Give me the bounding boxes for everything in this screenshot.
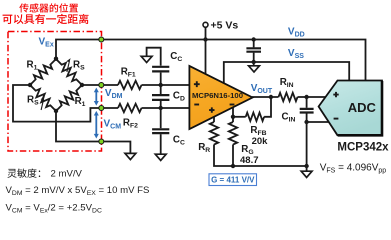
ground at ADC input rail [301, 171, 312, 177]
node: RG/RFB [231, 115, 235, 119]
variable arrow on bottom-left RS [41, 99, 44, 110]
boundary node VCM [99, 139, 104, 144]
node: bridge top [54, 57, 58, 61]
resistor R1 bridge top-left [30, 59, 56, 85]
svg-text:2 mV/V: 2 mV/V [51, 169, 83, 180]
wire: bypass cap branch from top rail [253, 40, 255, 48]
wire: RR from amp feedback + pin down to rail [213, 117, 215, 122]
ground on VCM run [125, 153, 136, 159]
wire: VSS rail to ADC [224, 62, 349, 84]
wire: VOUT to RIN to ADC + [252, 96, 279, 98]
wire: bridge left node loop to RF2 line [13, 85, 118, 122]
pin - main input [194, 104, 199, 106]
resistor RG [229, 122, 237, 145]
capacitor CC bottom [152, 129, 169, 133]
svg-text:MCP342x: MCP342x [337, 142, 389, 154]
node: VOUT [269, 95, 273, 99]
VCM arrow [95, 115, 97, 135]
resistor RF2 [118, 104, 142, 112]
resistor RFB [246, 113, 264, 121]
svg-text:+5 Vs: +5 Vs [211, 20, 239, 32]
op-amp U1 MCP6N16-100 [189, 66, 252, 129]
pin - feedback [230, 104, 235, 106]
svg-text:48.7: 48.7 [240, 155, 259, 166]
node: RG bottom [231, 164, 235, 168]
wire: RG from amp feedback - pin [232, 107, 234, 122]
variable arrow on top-right RS [67, 61, 70, 72]
node: bridge bottom [54, 109, 58, 113]
pin - ADC [334, 118, 339, 120]
capacitor CC top [152, 67, 169, 72]
ground at CC top (via jog) [141, 56, 152, 62]
ground at bypass cap / VSS [249, 66, 260, 72]
resistor RF1 [118, 81, 142, 89]
wire: RFB run from RG top to VOUT node [233, 116, 246, 118]
svg-text:20k: 20k [252, 136, 269, 147]
node: CD top [159, 83, 163, 87]
gain annotation box G = 411 V/V [209, 174, 257, 186]
svg-text:ADC: ADC [348, 100, 377, 115]
node: RIN/CIN [304, 95, 308, 99]
resistor RR [210, 122, 218, 145]
resistor RS bridge bottom-left (variable) [30, 85, 56, 111]
resistor RS bridge top-right (variable) [56, 59, 82, 85]
ADC U2 MCP342x [319, 81, 382, 136]
+5Vs supply terminal [203, 22, 208, 27]
capacitor CD [152, 95, 169, 100]
pin + ADC [333, 92, 338, 97]
capacitor CIN [300, 109, 314, 113]
capacitor bypass at +5V [246, 48, 261, 51]
svg-text:MCP6N16-100: MCP6N16-100 [192, 91, 243, 100]
resistor RIN [279, 93, 298, 101]
boundary node VDM- [99, 106, 104, 111]
node: CD bottom [159, 106, 163, 110]
wire: +5Vs stub down to amp VDD pin [205, 27, 207, 76]
wire: VEx top rail from bridge top to VDD corner [56, 40, 366, 82]
note: sensitivity (Chinese) [7, 169, 16, 178]
node: bridge right [80, 83, 84, 87]
pin + main input [194, 81, 200, 87]
resistor R1 bridge bottom-right [56, 85, 82, 111]
node: bypass cap top [252, 37, 256, 41]
wire: bridge bottom to VCM ground run [56, 111, 130, 153]
title line 2 [3, 15, 13, 24]
sensor region box (red dash-dot) [8, 32, 102, 152]
node: CIN bottom [304, 120, 308, 124]
pin + feedback [209, 107, 214, 112]
svg-text:VDM = 2 mV/V x 5VEX = 10 mV FS: VDM = 2 mV/V x 5VEX = 10 mV FS [6, 185, 150, 197]
boundary node VDM+ [99, 83, 104, 88]
VDM arrow [95, 92, 97, 102]
boundary node VEx [99, 37, 104, 42]
wire: bridge right node to amp + input (RF1 line) [82, 84, 118, 86]
node: +5Vs tap [203, 37, 207, 41]
node: VSS/gnd [252, 60, 256, 64]
wire: filter cap chain vertical [147, 48, 161, 66]
svg-text:G = 411 V/V: G = 411 V/V [211, 176, 255, 185]
node: bridge left [28, 83, 32, 87]
title line 1: sensor location note [19, 3, 28, 12]
node: rail ground [304, 164, 308, 168]
ground below CC bottom [155, 154, 166, 160]
wire: CIN branch and ADC - input [306, 97, 308, 108]
